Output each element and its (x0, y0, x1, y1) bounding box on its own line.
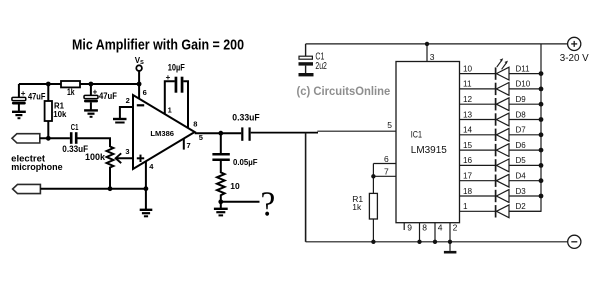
wire pin 3 (V+) (427, 44, 435, 62)
wire bottom rail (negative) (306, 241, 568, 243)
svg-text:8: 8 (422, 223, 427, 233)
wire LED D4 anode to +V bus (509, 180, 541, 182)
ground (under left 47uF) (12, 112, 26, 118)
watermark CircuitsOnline (297, 84, 391, 98)
resistor 10 (zobel) (217, 161, 240, 202)
svg-text:D7: D7 (516, 126, 527, 135)
wire LED D11 anode to +V bus (509, 73, 541, 75)
wire LED D8 anode to +V bus (509, 119, 541, 121)
wire +V bus (509, 44, 541, 211)
svg-text:6: 6 (143, 88, 147, 97)
terminal Vs (135, 56, 144, 84)
wire LED D3 anode to +V bus (509, 195, 541, 197)
svg-text:microphone: microphone (11, 162, 63, 173)
wire LED D10 anode to +V bus (509, 88, 541, 90)
svg-text:6: 6 (384, 154, 389, 164)
svg-text:D9: D9 (516, 95, 527, 104)
junction dot D11 on +V bus (539, 71, 544, 76)
capacitor 0.05uF (212, 133, 257, 167)
svg-text:+: + (21, 89, 26, 98)
svg-text:16: 16 (463, 156, 473, 165)
capacitor C1 2u2 (299, 44, 328, 73)
svg-text:8: 8 (193, 120, 197, 129)
LED D11 (496, 64, 531, 80)
wire to question mark (221, 201, 260, 203)
svg-text:(c) CircuitsOnline: (c) CircuitsOnline (297, 84, 391, 98)
svg-text:D6: D6 (516, 141, 527, 150)
op-amp U1 LM386 (133, 95, 195, 169)
wire C1 to pot (78, 138, 111, 147)
wire top rail (right section) (306, 43, 568, 45)
svg-text:+: + (166, 73, 171, 82)
wire pin 14 to LED D7 (460, 126, 496, 135)
resistor R1 10k (45, 84, 67, 138)
svg-text:1: 1 (463, 202, 468, 211)
ground (main, under pin 4) (140, 189, 153, 217)
junction dot zobel ground (218, 199, 223, 204)
junction dot rail / R1 (46, 82, 51, 87)
wire LED D7 anode to +V bus (509, 134, 541, 136)
pin 6 wire (Vs to op-amp top) (139, 84, 147, 99)
junction dot D9 on +V bus (539, 102, 544, 107)
svg-text:?: ? (261, 184, 276, 223)
electret microphone plug (ground) (13, 184, 41, 193)
svg-text:D11: D11 (516, 64, 531, 73)
LED D4 (496, 172, 527, 188)
junction dot D6 on +V bus (539, 148, 544, 153)
pin 4 wire (146, 161, 154, 188)
svg-text:1k: 1k (352, 202, 362, 212)
svg-text:7: 7 (187, 141, 191, 150)
svg-text:14: 14 (463, 126, 473, 135)
wire pin 6 (373, 154, 396, 164)
wire pin 13 to LED D8 (460, 110, 496, 119)
ground bar (pin 2) (444, 251, 457, 254)
wire top supply rail (left section) (19, 83, 139, 85)
wire pin 1 to LED D2 (460, 202, 496, 211)
resistor 1k (61, 81, 80, 97)
terminal + 3-20V (560, 37, 589, 64)
svg-text:11: 11 (463, 80, 472, 89)
junction dot D7 on +V bus (539, 132, 544, 137)
junction dot R1 bottom (371, 240, 375, 244)
svg-text:+: + (93, 87, 98, 96)
svg-text:5: 5 (387, 120, 392, 130)
wire pin 18 to LED D3 (460, 187, 496, 196)
wire pin 5 output (195, 133, 242, 142)
wire pin 11 to LED D10 (460, 80, 496, 89)
svg-text:IC1: IC1 (411, 130, 422, 141)
svg-text:12: 12 (463, 95, 473, 104)
junction dot pin 4 (433, 240, 437, 244)
ground (under right 47uF) (84, 110, 98, 116)
svg-text:LM386: LM386 (150, 129, 174, 138)
wire mic to C1 (40, 137, 70, 139)
LED D6 (496, 141, 527, 157)
junction dot pin3/top rail (425, 42, 429, 46)
wire pin 15 to LED D6 (460, 141, 496, 150)
svg-text:1k: 1k (67, 87, 75, 97)
svg-text:D4: D4 (516, 172, 527, 181)
svg-text:10k: 10k (53, 109, 66, 119)
svg-text:D10: D10 (516, 80, 531, 89)
svg-text:D5: D5 (516, 156, 527, 165)
ground bar (under C1 2u2) (299, 73, 314, 76)
pin 2 wire + ground (113, 96, 133, 122)
svg-text:5: 5 (199, 133, 203, 142)
wire pin 17 to LED D4 (460, 172, 496, 181)
wire bottom (mic ground to pin 4) (40, 188, 145, 190)
title (72, 37, 244, 53)
wire pin 4 to rail (435, 223, 443, 242)
junction dot D5 on +V bus (539, 163, 544, 168)
capacitor 47uF (left) (12, 84, 46, 111)
wire pin 7 (373, 167, 396, 177)
wire pin 2 to rail/ground (450, 223, 458, 251)
svg-text:10: 10 (463, 64, 473, 73)
svg-text:4: 4 (438, 223, 443, 233)
wire pin6 to R1 (372, 164, 374, 194)
wire to IC pin 5 (thin part with jog) (317, 120, 396, 131)
junction dot pot bottom (108, 186, 113, 191)
svg-text:10µF: 10µF (168, 63, 186, 73)
LED D10 (496, 80, 531, 96)
svg-text:9: 9 (407, 223, 412, 233)
svg-text:D2: D2 (516, 202, 527, 211)
wiper arrow pin 3 (116, 147, 133, 163)
junction dot rail / Vs (137, 82, 142, 87)
svg-text:2u2: 2u2 (315, 61, 327, 72)
svg-text:10: 10 (230, 181, 240, 191)
LED D5 (496, 156, 527, 172)
pin 9 stub (404, 223, 412, 233)
svg-text:C1: C1 (71, 122, 79, 132)
svg-text:0.33uF: 0.33uF (232, 113, 260, 123)
junction dot pin 4 ground (144, 186, 149, 191)
svg-text:18: 18 (463, 187, 473, 196)
label electret microphone (11, 153, 63, 173)
svg-text:D3: D3 (516, 187, 527, 196)
question mark (261, 184, 276, 223)
LED D7 (496, 126, 527, 142)
svg-text:47uF: 47uF (28, 91, 46, 101)
LED D9 (496, 95, 527, 111)
svg-text:3: 3 (430, 52, 435, 62)
LED D3 (496, 187, 527, 203)
IC U2 LM3915 (396, 62, 460, 223)
svg-text:47uF: 47uF (99, 91, 117, 101)
svg-text:2: 2 (126, 96, 130, 105)
svg-text:100k: 100k (85, 152, 106, 162)
capacitor C1 0.33uF (62, 122, 88, 154)
svg-text:3: 3 (125, 147, 129, 156)
wire output to LM3915 input (thick part) (251, 132, 318, 134)
pin 7 stub (184, 139, 191, 150)
svg-text:2: 2 (453, 223, 458, 233)
svg-text:0.05µF: 0.05µF (233, 158, 258, 167)
svg-text:LM3915: LM3915 (411, 145, 447, 156)
svg-text:3-20 V: 3-20 V (560, 53, 589, 64)
junction dot D8 on +V bus (539, 117, 544, 122)
LED D2 (496, 202, 527, 218)
light arrows on D11 (497, 58, 508, 69)
wire pin 12 to LED D9 (460, 95, 496, 104)
LED D8 (496, 110, 527, 126)
wire pin 16 to LED D5 (460, 156, 496, 165)
wire LED D5 anode to +V bus (509, 164, 541, 166)
junction dot D3 on +V bus (539, 194, 544, 199)
capacitor 47uF (right of 1k) (84, 84, 117, 110)
potentiometer 100k (85, 147, 113, 189)
wire LED D6 anode to +V bus (509, 149, 541, 151)
junction dot rail / 47uF right (89, 82, 94, 87)
svg-text:7: 7 (384, 167, 389, 177)
svg-text:15: 15 (463, 141, 473, 150)
junction dot mic/R1/C1 (46, 136, 51, 141)
junction dot pin 8 (417, 240, 421, 244)
svg-text:17: 17 (463, 172, 473, 181)
ground (under 10 ohm) (214, 202, 228, 216)
junction dot pin 2 (448, 240, 452, 244)
junction dot D10 on +V bus (539, 87, 544, 92)
svg-text:D8: D8 (516, 110, 527, 119)
svg-text:1: 1 (168, 106, 172, 115)
junction dot output node (218, 131, 223, 136)
capacitor 0.33uF (output coupling) (232, 113, 260, 141)
wire left-section to negative rail (305, 133, 307, 242)
svg-text:13: 13 (463, 110, 473, 119)
wire pin 8 to rail (420, 223, 428, 242)
wire LED D9 anode to +V bus (509, 103, 541, 105)
capacitor 10uF (gain, pins 1-8) (165, 63, 198, 129)
wire LED D2 anode to +V bus (509, 210, 541, 212)
junction dot D4 on +V bus (539, 178, 544, 183)
resistor R1 1k (divider) (352, 193, 377, 241)
terminal - (negative) (568, 235, 581, 248)
junction dot pin6/pin7 (371, 174, 375, 178)
electret microphone plug (signal) (12, 134, 40, 143)
wire pin 10 to LED D11 (460, 64, 496, 73)
svg-text:Mic Amplifier with Gain = 200: Mic Amplifier with Gain = 200 (72, 37, 244, 53)
